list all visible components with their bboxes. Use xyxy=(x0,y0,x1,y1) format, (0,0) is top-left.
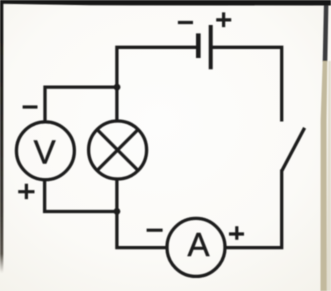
svg-text:V: V xyxy=(34,133,56,170)
svg-text:A: A xyxy=(187,226,209,263)
